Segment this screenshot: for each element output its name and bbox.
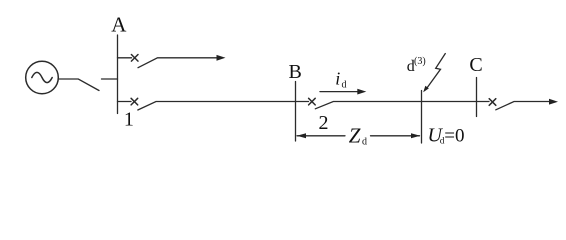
svg-text:C: C	[469, 54, 482, 76]
svg-text:i: i	[335, 69, 340, 89]
svg-text:1: 1	[124, 109, 134, 131]
svg-text:Z: Z	[349, 123, 361, 147]
svg-text:=0: =0	[444, 126, 464, 147]
svg-text:d: d	[342, 80, 347, 91]
svg-text:A: A	[111, 13, 127, 37]
svg-text:d: d	[362, 136, 367, 147]
svg-text:(3): (3)	[414, 56, 426, 67]
svg-text:B: B	[289, 61, 302, 83]
svg-text:2: 2	[319, 112, 329, 134]
